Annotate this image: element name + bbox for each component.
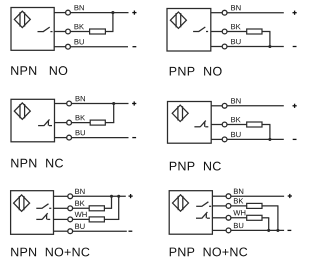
terminal BK (PNP NC) <box>222 122 227 127</box>
label BK (PNP NC) <box>231 117 240 122</box>
terminal WH (NPN NO+NC) <box>68 217 73 222</box>
wire BK stub from body (NPN NO) <box>54 31 66 33</box>
label BU (NPN NO) <box>75 39 84 44</box>
terminal BK (PNP NO+NC) <box>226 204 231 209</box>
wire dropper load to - (PNP NO) <box>269 32 271 47</box>
label BK (NPN NO) <box>75 24 84 29</box>
wire BN stub from body (PNP NO) <box>211 12 223 14</box>
proximity sensor symbol (PNP NO) <box>170 12 186 28</box>
caption PNP NO+NC <box>170 247 248 256</box>
terminal BU (PNP NO) <box>222 44 227 49</box>
wire riser load2 to + (NPN NO+NC) <box>118 196 120 219</box>
label WH (PNP NO+NC) <box>233 210 245 215</box>
wire BN to + rail (PNP NO) <box>227 12 284 14</box>
terminal BN (NPN NC) <box>67 101 72 106</box>
junction BU/load (PNP NC) <box>268 138 271 141</box>
wire BK to load (NPN NC) <box>71 122 90 124</box>
label BN (NPN NC) <box>76 96 85 101</box>
wire BN stub from body (NPN NO+NC) <box>54 195 69 197</box>
wire BU stub from body (PNP NO+NC) <box>212 229 226 231</box>
wire dropper load to - (PNP NC) <box>269 125 271 140</box>
sensor body outline (PNP NC) <box>168 102 212 144</box>
NO contact (PNP NO) <box>193 27 208 32</box>
terminal BU (PNP NC) <box>222 137 227 142</box>
label BK (PNP NO+NC) <box>234 198 243 203</box>
wire load2 to dropper (PNP NO+NC) <box>262 217 269 219</box>
wire BU to - rail (NPN NC) <box>71 137 128 139</box>
wire BU to - rail (NPN NO+NC) <box>72 230 126 232</box>
wire BN stub from body (NPN NO) <box>54 12 66 14</box>
proximity sensor symbol (PNP NO+NC) <box>173 195 189 211</box>
supply + (PNP NO) <box>293 11 297 15</box>
wire BU stub from body (NPN NO+NC) <box>54 230 69 232</box>
wire BK to load (NPN NO) <box>70 31 89 33</box>
junction BN/NO load (NPN NO+NC) <box>110 195 113 198</box>
wire BK stub from body (NPN NO+NC) <box>54 207 69 209</box>
caption NPN NO+NC <box>11 248 89 257</box>
wire dropper load1 to - (PNP NO+NC) <box>277 206 279 231</box>
sensor body outline (PNP NO) <box>167 9 211 52</box>
supply + (NPN NC) <box>132 101 136 105</box>
terminal BK (PNP NO) <box>222 29 227 34</box>
wire BN to + rail (NPN NO+NC) <box>72 195 125 197</box>
wire BK to load (PNP NO) <box>227 31 247 33</box>
junction BN/NC load (NPN NO+NC) <box>117 195 120 198</box>
label BK (NPN NC) <box>76 115 85 120</box>
caption NPN NO <box>11 66 67 75</box>
label BN (PNP NO) <box>231 5 240 10</box>
NO contact (NPN NO+NC) <box>36 204 51 209</box>
wire WH to load (PNP NO+NC) <box>231 217 247 219</box>
wire BK to load (NPN NO+NC) <box>72 207 89 209</box>
label BN (NPN NO) <box>75 5 84 10</box>
terminal BK (NPN NO) <box>66 29 71 34</box>
wire load to dropper (PNP NO) <box>262 31 270 33</box>
terminal BU (NPN NC) <box>67 135 72 140</box>
junction BU/load (PNP NO) <box>268 45 271 48</box>
wire BN stub from body (NPN NC) <box>55 103 67 105</box>
proximity sensor symbol (NPN NC) <box>14 103 30 119</box>
wire load to dropper (PNP NC) <box>262 124 270 126</box>
terminal BK (NPN NO+NC) <box>68 206 73 211</box>
wire BK to load (PNP NO+NC) <box>231 205 247 207</box>
wire riser load to + (NPN NC) <box>113 104 115 123</box>
terminal BU (NPN NO) <box>66 44 71 49</box>
label BN (PNP NO+NC) <box>234 189 243 194</box>
wire BK stub from body (PNP NO+NC) <box>212 205 226 207</box>
junction BU/load2 (PNP NO+NC) <box>267 229 270 232</box>
label BK (NPN NO+NC) <box>75 201 84 206</box>
wire WH stub from body (PNP NO+NC) <box>212 217 226 219</box>
supply - (PNP NO) <box>293 46 297 48</box>
supply - (NPN NO) <box>133 46 137 48</box>
load resistor RL (PNP NC) <box>247 122 262 127</box>
wire BK to load (PNP NC) <box>227 124 247 126</box>
wire dropper load2 to - (PNP NO+NC) <box>268 218 270 231</box>
wire load1 to riser (NPN NO+NC) <box>104 207 112 209</box>
load resistor RL (NPN NO) <box>90 29 106 34</box>
proximity sensor symbol (PNP NC) <box>172 105 188 121</box>
supply + (PNP NO+NC) <box>288 194 292 198</box>
wire BU stub from body (NPN NC) <box>55 137 67 139</box>
sensor body outline (NPN NC) <box>11 99 55 142</box>
label BN (NPN NO+NC) <box>75 189 84 194</box>
terminal WH (PNP NO+NC) <box>226 215 231 220</box>
load resistor RL (PNP NO) <box>247 29 262 34</box>
wire BU to - rail (NPN NO) <box>70 46 128 48</box>
terminal BN (PNP NO) <box>222 10 227 15</box>
supply + (NPN NO+NC) <box>129 194 133 198</box>
wire BN stub from body (PNP NC) <box>211 105 222 107</box>
supply - (NPN NO+NC) <box>129 230 133 232</box>
wire load2 to riser (NPN NO+NC) <box>104 218 119 220</box>
wire load to riser (NPN NC) <box>105 122 114 124</box>
terminal BN (PNP NO+NC) <box>226 194 231 199</box>
label BU (NPN NO+NC) <box>75 224 84 229</box>
wire BU to - rail (PNP NC) <box>227 138 284 140</box>
NC contact (NPN NC) <box>38 119 52 125</box>
wire BN to + rail (NPN NO) <box>70 12 128 14</box>
caption NPN NC <box>11 159 63 168</box>
load resistor RL1 (NPN NO+NC) <box>89 206 104 211</box>
wire BU stub from body (NPN NO) <box>54 46 66 48</box>
sensor body outline (NPN NO) <box>11 8 54 51</box>
junction BU/load1 (PNP NO+NC) <box>276 229 279 232</box>
label BU (PNP NC) <box>231 132 240 137</box>
label BU (NPN NC) <box>76 130 85 135</box>
wire BU to - rail (PNP NO+NC) <box>231 229 284 231</box>
label BU (PNP NO) <box>231 39 240 44</box>
wire BK stub from body (NPN NC) <box>55 122 67 124</box>
terminal BU (NPN NO+NC) <box>68 229 73 234</box>
wire riser load to + (NPN NO) <box>112 13 114 32</box>
terminal BN (NPN NO+NC) <box>68 194 73 199</box>
wire BN to + rail (PNP NO+NC) <box>231 195 284 197</box>
wire BU stub from body (PNP NC) <box>211 138 222 140</box>
wire BN stub from body (PNP NO+NC) <box>212 195 226 197</box>
NO contact (NPN NO) <box>38 27 53 32</box>
supply - (PNP NC) <box>293 138 297 140</box>
wire riser load1 to + (NPN NO+NC) <box>111 196 113 208</box>
junction BN/load (NPN NC) <box>112 102 115 105</box>
load resistor RL2 (NPN NO+NC) <box>89 217 104 222</box>
wire load to riser (NPN NO) <box>105 31 113 33</box>
wire BN to + rail (NPN NC) <box>71 103 128 105</box>
wire BK stub from body (PNP NC) <box>211 124 222 126</box>
wire load1 to dropper (PNP NO+NC) <box>262 205 278 207</box>
sensor body outline (NPN NO+NC) <box>11 191 54 235</box>
terminal BN (NPN NO) <box>66 10 71 15</box>
label BU (PNP NO+NC) <box>234 223 243 228</box>
sensor body outline (PNP NO+NC) <box>169 191 212 235</box>
load resistor RL1 (PNP NO+NC) <box>247 203 262 208</box>
supply - (NPN NC) <box>132 137 136 139</box>
NC contact (PNP NO+NC) <box>196 212 210 218</box>
NO contact (PNP NO+NC) <box>196 202 211 207</box>
label BK (PNP NO) <box>231 24 240 29</box>
NC contact (PNP NC) <box>194 121 208 127</box>
wire WH stub from body (NPN NO+NC) <box>54 218 69 220</box>
label BN (PNP NC) <box>231 98 240 103</box>
wire BN to + rail (PNP NC) <box>227 105 284 107</box>
supply + (PNP NC) <box>293 104 297 108</box>
load resistor RL2 (PNP NO+NC) <box>247 215 262 220</box>
wire BK stub from body (PNP NO) <box>211 31 223 33</box>
proximity sensor symbol (NPN NO) <box>14 11 30 27</box>
terminal BK (NPN NC) <box>67 120 72 125</box>
wire WH to load (NPN NO+NC) <box>72 218 89 220</box>
label WH (NPN NO+NC) <box>75 212 87 217</box>
supply + (NPN NO) <box>132 11 136 15</box>
wire BU to - rail (PNP NO) <box>227 46 284 48</box>
proximity sensor symbol (NPN NO+NC) <box>14 195 30 211</box>
NC contact (NPN NO+NC) <box>36 213 50 219</box>
load resistor RL (NPN NC) <box>90 120 105 125</box>
terminal BU (PNP NO+NC) <box>226 228 231 233</box>
caption PNP NC <box>170 162 221 171</box>
supply - (PNP NO+NC) <box>288 229 292 231</box>
caption PNP NO <box>170 67 222 76</box>
junction BN/load (NPN NO) <box>111 11 114 14</box>
wire BU stub from body (PNP NO) <box>211 46 223 48</box>
terminal BN (PNP NC) <box>222 103 227 108</box>
